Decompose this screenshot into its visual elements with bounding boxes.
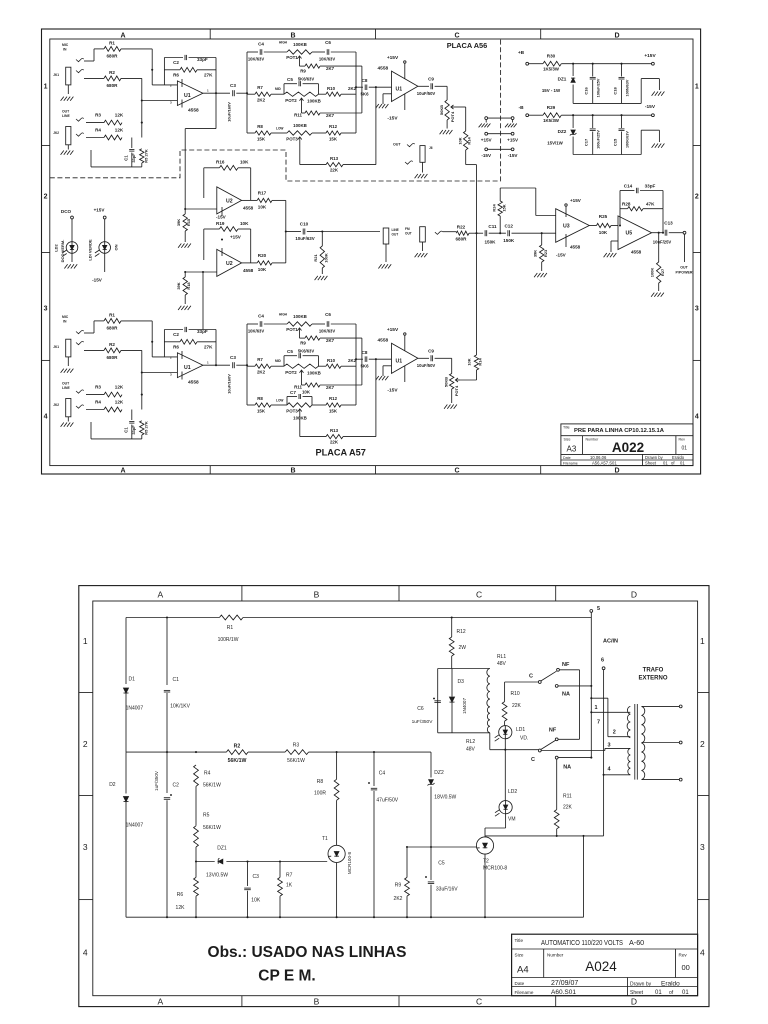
resistor R10 22K [502, 682, 538, 725]
svg-text:U1: U1 [184, 365, 191, 371]
resistor R2 680R A56 [104, 76, 121, 81]
switch contacts JK2 A57 [76, 390, 84, 408]
svg-text:12K: 12K [115, 128, 124, 133]
svg-text:A: A [120, 32, 125, 39]
potentiometer POT3 100KB A56 [287, 131, 326, 142]
terminal 6 [602, 667, 605, 670]
terminal pair ground row [485, 117, 514, 123]
svg-text:A3: A3 [567, 445, 577, 454]
thyristor T1 MCR100-8 [328, 800, 345, 917]
svg-text:U5: U5 [626, 231, 633, 237]
potentiometer POT1 100KB A57 [287, 322, 325, 333]
wire supply bottom rail lower [573, 130, 659, 154]
svg-text:RL1: RL1 [497, 654, 506, 660]
svg-text:56K/1W: 56K/1W [228, 758, 247, 764]
resistor R11 2K7 A57 [302, 338, 362, 387]
capacitor C14 33pF feedback [620, 188, 663, 226]
ground R23 [534, 273, 547, 277]
LED LD1 VD. [495, 726, 512, 750]
LED LD1 VERDE ON [95, 242, 111, 272]
svg-text:10K: 10K [457, 137, 462, 144]
svg-text:10K: 10K [599, 230, 608, 235]
svg-text:4558: 4558 [243, 268, 254, 273]
svg-text:1: 1 [695, 84, 699, 91]
resistor R19 10K feedback [204, 227, 251, 263]
svg-text:01: 01 [663, 461, 668, 466]
jack JK1 A56 [66, 67, 71, 94]
potentiometer POT3 100KB A57 [287, 403, 326, 414]
terminal +15V supply [652, 62, 655, 65]
svg-text:18V/0.5W: 18V/0.5W [434, 795, 456, 801]
wire R2 input A56 [84, 77, 104, 79]
resistor R12 2W [449, 637, 454, 669]
svg-text:01: 01 [655, 990, 662, 996]
svg-text:R14: R14 [478, 358, 483, 366]
capacitor C6 10K/63V A57 [327, 321, 356, 327]
svg-text:MCR100-8: MCR100-8 [483, 866, 507, 872]
svg-text:LOW: LOW [276, 127, 283, 131]
resistor R9 2K7 A56 [300, 61, 362, 68]
svg-text:10K: 10K [258, 267, 267, 272]
svg-text:4: 4 [83, 947, 88, 957]
svg-text:Number: Number [547, 953, 564, 958]
svg-text:R5 27K: R5 27K [144, 149, 149, 163]
svg-text:2W: 2W [459, 645, 467, 651]
svg-text:C4: C4 [379, 770, 386, 776]
resistor R4 12K A57 [86, 407, 122, 412]
resistor R8 100R [334, 752, 339, 800]
svg-text:2: 2 [83, 739, 88, 749]
svg-text:Obs.: USADO NAS LINHAS: Obs.: USADO NAS LINHAS [208, 944, 407, 961]
ground POT4 A56 [440, 130, 453, 134]
potentiometer POT2 100KB A57 [284, 364, 319, 375]
svg-text:R7: R7 [257, 357, 263, 362]
resistor R27 100K [657, 232, 661, 291]
svg-text:22K: 22K [512, 703, 522, 709]
wire R2 input A57 [84, 349, 104, 351]
svg-text:15K: 15K [329, 136, 338, 141]
svg-text:C16: C16 [584, 87, 589, 95]
svg-text:R4: R4 [95, 128, 101, 133]
svg-text:LINE: LINE [62, 114, 70, 118]
svg-text:POT4: POT4 [450, 111, 455, 122]
svg-text:5K6: 5K6 [360, 364, 369, 369]
svg-text:48V: 48V [497, 661, 507, 667]
svg-text:-15V: -15V [481, 153, 492, 158]
wire R14 to output bus A56 [466, 150, 477, 233]
svg-text:3: 3 [695, 306, 699, 313]
svg-text:R1: R1 [109, 312, 115, 317]
capacitor C16 100uF/25V [590, 63, 596, 104]
svg-text:C14: C14 [624, 183, 633, 188]
resistor R17 10K [242, 198, 286, 202]
ground supply upper [652, 92, 665, 96]
svg-text:+15V: +15V [230, 235, 242, 240]
svg-text:2K7: 2K7 [326, 113, 335, 118]
svg-text:T1: T1 [322, 836, 328, 842]
bottom title block [512, 934, 698, 996]
svg-text:OUT: OUT [680, 266, 688, 270]
ground terminal pair right [505, 124, 517, 128]
svg-text:100K/63V: 100K/63V [625, 131, 629, 148]
svg-text:DCO: DCO [61, 209, 72, 214]
svg-text:R1: R1 [109, 40, 115, 45]
svg-text:Title: Title [515, 938, 524, 943]
svg-text:D1: D1 [129, 677, 136, 683]
svg-text:100KB: 100KB [307, 99, 321, 104]
svg-text:R24: R24 [491, 204, 496, 212]
svg-text:5K6/63V: 5K6/63V [298, 349, 315, 354]
resistor R4 56K/1W [194, 765, 199, 826]
svg-text:33pF: 33pF [131, 153, 136, 163]
svg-text:OUT: OUT [393, 143, 401, 147]
svg-text:Size: Size [515, 953, 524, 958]
svg-text:C9: C9 [428, 349, 434, 354]
svg-text:1K5/3W: 1K5/3W [543, 67, 560, 72]
svg-text:4: 4 [695, 414, 699, 421]
capacitor C18 100N/63V [619, 63, 625, 104]
svg-text:C7: C7 [290, 390, 296, 395]
svg-text:5K6/63V: 5K6/63V [298, 77, 315, 82]
svg-text:-15V: -15V [645, 104, 656, 110]
switch contacts JK1 A56 [76, 58, 84, 72]
svg-text:U1: U1 [396, 359, 403, 365]
svg-text:LD2: LD2 [508, 789, 517, 795]
op-amp U1 output stage 4558 A56 [392, 61, 418, 110]
svg-text:B: B [314, 997, 320, 1007]
capacitor C5 5K6/63V A57 [284, 353, 319, 366]
svg-text:C4: C4 [258, 314, 264, 319]
svg-text:5K6: 5K6 [360, 92, 369, 97]
wire pot network right bus A56 [355, 52, 357, 133]
wire pot network left bus A56 [246, 52, 258, 133]
resistor R15 39K [183, 209, 187, 242]
ground terminal pair left [479, 124, 491, 128]
svg-text:680R: 680R [107, 83, 119, 88]
capacitor C9 10uF/50V A57 [418, 355, 440, 361]
resistor R4 12K A56 [86, 135, 122, 140]
diode D2 1N4007 [124, 797, 129, 918]
svg-text:R23: R23 [543, 249, 548, 257]
resistor R6 27K A57 [164, 330, 216, 366]
terminal 5 [590, 610, 593, 613]
resistor R29 1K5/3W [543, 113, 652, 118]
svg-text:4558: 4558 [631, 250, 642, 255]
wire LD1 bottom to switch2 and tap3 [490, 748, 631, 750]
svg-text:C: C [476, 590, 482, 600]
resistor R13 22K A56 [300, 87, 376, 167]
svg-text:00: 00 [682, 963, 690, 972]
svg-text:Drawn by: Drawn by [630, 981, 652, 987]
potentiometer POT1 100KB A56 [287, 50, 325, 61]
capacitor C2 1uF/350V [164, 794, 172, 917]
svg-text:Filename: Filename [563, 462, 578, 466]
svg-text:150K: 150K [485, 240, 497, 245]
ground JK2 A57 [61, 423, 74, 427]
svg-text:-15V: -15V [387, 116, 398, 122]
svg-text:22K: 22K [330, 168, 339, 173]
svg-text:R10: R10 [327, 86, 336, 91]
svg-text:150K: 150K [503, 238, 515, 243]
wire pot network left bus A57 [246, 324, 258, 405]
svg-text:100K: 100K [650, 268, 655, 278]
resistor R16 10K feedback [204, 165, 251, 200]
svg-text:-15V: -15V [92, 278, 103, 283]
svg-text:A024: A024 [585, 959, 617, 974]
svg-text:2K7: 2K7 [326, 66, 335, 71]
ground U5 input [604, 241, 618, 257]
zener DZ2 15V/1W [570, 114, 577, 154]
svg-text:33pF: 33pF [645, 183, 656, 188]
wire NA1 to line5 [558, 685, 592, 687]
svg-text:56K/1W: 56K/1W [287, 758, 305, 764]
svg-text:R12: R12 [329, 124, 338, 129]
svg-text:01: 01 [680, 461, 685, 466]
thyristor T2 MCR100-8 [476, 836, 493, 917]
svg-text:R19: R19 [216, 221, 225, 226]
svg-text:LINE: LINE [392, 228, 399, 232]
resistor R18 39K [183, 272, 187, 304]
svg-text:A4: A4 [517, 964, 529, 975]
op-amp U2 lower 4558 [217, 238, 242, 276]
svg-text:OUT: OUT [392, 233, 399, 237]
op-amp U1 output stage 4558 A57 [392, 333, 418, 382]
svg-text:4: 4 [44, 414, 48, 421]
svg-text:33pF: 33pF [197, 57, 208, 62]
svg-text:22K: 22K [563, 805, 573, 811]
svg-text:2K2: 2K2 [257, 98, 266, 103]
zener DZ1 15V-1W [571, 63, 575, 104]
svg-text:C5: C5 [287, 349, 293, 354]
svg-text:A60.S01: A60.S01 [551, 989, 576, 996]
ground R27 [651, 293, 664, 297]
svg-text:47uF/50V: 47uF/50V [376, 798, 398, 804]
wire C1 R5 bottom return A57 [91, 422, 142, 439]
svg-text:100R/1W: 100R/1W [218, 637, 239, 643]
svg-text:+15V: +15V [570, 198, 582, 203]
svg-text:PLACA A57: PLACA A57 [316, 447, 366, 457]
svg-text:R3: R3 [293, 742, 300, 748]
svg-text:POT3: POT3 [286, 409, 298, 414]
ground R18 [178, 306, 191, 310]
switch contacts JK2 A56 [76, 118, 84, 136]
svg-text:R25: R25 [599, 214, 608, 219]
ground LINE OUT jack [378, 264, 391, 268]
svg-text:C15: C15 [612, 138, 617, 146]
jack JK2 A56 [66, 127, 71, 150]
svg-text:4558: 4558 [188, 380, 199, 386]
wire U1 output A56 [203, 92, 230, 94]
svg-text:LDI VERDE: LDI VERDE [88, 239, 93, 261]
svg-text:LD1: LD1 [516, 727, 525, 733]
svg-text:Date: Date [563, 456, 571, 460]
relay coil RL2 48V [487, 707, 489, 750]
svg-text:R22: R22 [457, 224, 466, 229]
capacitor C15 100K/63V [619, 114, 625, 154]
svg-text:C10: C10 [300, 221, 309, 226]
svg-text:12K: 12K [115, 385, 124, 390]
svg-text:R3: R3 [95, 113, 101, 118]
wire mic to R1 A57 [84, 321, 104, 333]
svg-text:-15V: -15V [216, 215, 227, 220]
svg-text:Title: Title [563, 425, 570, 429]
svg-text:39K: 39K [533, 250, 538, 257]
svg-text:10K/1KV: 10K/1KV [170, 704, 190, 710]
svg-text:DCO VERM.: DCO VERM. [60, 240, 65, 263]
op-amp U1 first stage 4558 A56 [177, 79, 203, 108]
svg-text:680R: 680R [107, 355, 119, 360]
svg-text:VM: VM [508, 817, 516, 823]
svg-text:100K: 100K [324, 253, 329, 263]
svg-text:U1: U1 [396, 87, 403, 93]
svg-text:TRAFO: TRAFO [643, 668, 664, 674]
resistor R10 2K2 A56 [319, 92, 357, 96]
svg-text:Sheet: Sheet [645, 461, 657, 466]
svg-text:3: 3 [608, 743, 611, 749]
wire NA2 and R11 branch [557, 758, 592, 810]
resistor R9 2K7 A57 [300, 333, 362, 340]
svg-text:C: C [529, 674, 533, 680]
capacitor C17 100uF/25V [590, 114, 596, 154]
svg-text:R10: R10 [327, 358, 336, 363]
svg-text:ON: ON [114, 244, 119, 250]
svg-text:OUT: OUT [405, 231, 412, 235]
wire C1 R5 bottom return A56 [91, 150, 142, 167]
svg-text:R5: R5 [203, 813, 210, 819]
op-amp U3 4558 [556, 204, 590, 247]
svg-text:R7: R7 [257, 85, 263, 90]
svg-text:JK1: JK1 [53, 73, 59, 77]
wire AC line 5 bus [590, 618, 592, 759]
wire top rail [126, 612, 591, 685]
capacitor C2 33pF A57 [164, 327, 216, 357]
svg-text:+15V: +15V [481, 138, 493, 143]
svg-text:3: 3 [44, 306, 48, 313]
top frame zone letters and numbers [44, 32, 699, 474]
svg-text:4: 4 [700, 947, 705, 957]
switch contacts OUT jack [405, 143, 415, 164]
svg-text:NF: NF [562, 662, 570, 668]
capacitor C3 10uF A57 [233, 362, 247, 368]
svg-text:680R: 680R [107, 326, 119, 331]
svg-text:R2: R2 [109, 342, 115, 347]
ground JK1 A57 [61, 369, 74, 373]
svg-text:Sheet: Sheet [630, 990, 644, 996]
capacitor C4 10K/63V A57 [260, 321, 287, 327]
svg-text:U1: U1 [184, 93, 191, 99]
svg-text:100KB: 100KB [307, 371, 321, 376]
wire bottom rail [126, 836, 584, 918]
ground R15 [178, 244, 191, 248]
svg-text:50KB: 50KB [444, 377, 449, 387]
capacitor C3 10K [244, 862, 251, 918]
jack OUT notch [420, 146, 425, 173]
svg-text:-15V: -15V [387, 388, 398, 394]
potentiometer POT4 50KB A57 [440, 358, 477, 403]
svg-text:C13: C13 [664, 221, 673, 226]
capacitor C5 5K6/63V A56 [284, 81, 319, 94]
svg-text:1uF/350V: 1uF/350V [154, 770, 159, 791]
svg-text:10.06.06: 10.06.06 [590, 455, 607, 460]
svg-text:C9: C9 [428, 77, 434, 82]
svg-text:C6: C6 [325, 312, 331, 317]
svg-text:1K5/3W: 1K5/3W [543, 118, 560, 123]
svg-text:EXTERNO: EXTERNO [638, 676, 667, 682]
svg-text:FM: FM [405, 227, 410, 231]
svg-text:-B: -B [518, 105, 524, 111]
svg-text:10uF/50V: 10uF/50V [417, 363, 436, 368]
resistor R1 680R A57 [104, 319, 121, 324]
svg-text:100R: 100R [314, 791, 326, 797]
svg-text:R2: R2 [109, 70, 115, 75]
capacitor C13 10uF/25V [652, 230, 683, 236]
switch squiggle mixer [435, 231, 456, 234]
svg-text:Drawn by: Drawn by [645, 455, 664, 460]
svg-text:1: 1 [595, 705, 598, 711]
svg-text:MIC: MIC [62, 43, 69, 47]
resistor R12 15K A57 [326, 403, 356, 407]
svg-text:MCR100-8: MCR100-8 [347, 851, 352, 874]
wire input bus A57 [121, 321, 177, 410]
svg-text:A022: A022 [612, 440, 644, 455]
svg-text:-15V: -15V [508, 153, 519, 158]
resistor R20 10K [242, 261, 286, 265]
svg-text:J6: J6 [429, 146, 433, 150]
svg-text:1N4007: 1N4007 [126, 823, 144, 829]
svg-text:+15V: +15V [387, 327, 399, 333]
svg-text:AUTOMATICO 110/220 VOLTS: AUTOMATICO 110/220 VOLTS [541, 938, 623, 947]
svg-text:R1: R1 [227, 625, 234, 631]
capacitor C12 150K [508, 230, 556, 236]
svg-text:C11: C11 [488, 224, 497, 229]
terminal OUT P/POWER [683, 231, 686, 262]
svg-text:10uF/50V: 10uF/50V [417, 91, 436, 96]
svg-text:+15V: +15V [507, 138, 519, 143]
wire transformer tap 1 [591, 711, 630, 713]
svg-text:AC/IN: AC/IN [603, 638, 618, 644]
svg-text:R5 27K: R5 27K [144, 421, 149, 435]
resistor R6 27K A56 [164, 58, 216, 94]
resistor R2 680R A57 [104, 348, 121, 353]
svg-text:R28: R28 [622, 201, 631, 206]
op-amp U5 4558 [618, 216, 652, 250]
svg-text:C: C [531, 757, 535, 763]
svg-text:DZ2: DZ2 [558, 129, 567, 134]
resistor R6 12K [194, 862, 199, 918]
resistor R8 15K A56 [250, 131, 287, 135]
svg-text:Date: Date [515, 981, 525, 986]
svg-text:A-60: A-60 [629, 938, 644, 947]
svg-text:15V/1W: 15V/1W [547, 141, 563, 146]
svg-text:15V - 1W: 15V - 1W [542, 88, 561, 93]
op-amp U1 first stage 4558 A57 [177, 351, 203, 380]
resistor R8 15K A57 [250, 403, 287, 407]
svg-text:10K/63V: 10K/63V [248, 57, 265, 62]
svg-text:39K: 39K [176, 219, 181, 226]
ground supply lower [652, 144, 665, 148]
bottom title block text [515, 938, 690, 996]
svg-text:5: 5 [597, 606, 600, 612]
svg-text:C12: C12 [504, 224, 513, 229]
svg-text:JK2: JK2 [53, 403, 59, 407]
svg-text:C: C [454, 32, 459, 39]
svg-text:POT2: POT2 [285, 370, 297, 375]
svg-text:1K: 1K [286, 883, 293, 889]
svg-text:A: A [157, 997, 163, 1007]
svg-text:4558: 4558 [378, 338, 389, 344]
resistor R5 56K/1W [194, 826, 199, 862]
svg-text:01: 01 [682, 990, 689, 996]
